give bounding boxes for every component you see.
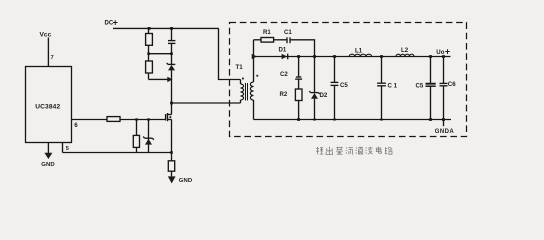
svg-text:D2: D2 — [320, 92, 328, 99]
wire source to sense resistor — [171, 153, 173, 161]
wire snubber mid link — [147, 52, 173, 55]
capacitor C1 — [287, 37, 290, 43]
node rail junction C3 — [333, 55, 336, 58]
resistor snubber lower — [146, 61, 153, 73]
wire gate pulldown branch — [136, 120, 138, 153]
node primary phase dot — [242, 78, 244, 80]
resistor R2 label — [280, 91, 288, 98]
transformer T1 secondary winding — [250, 82, 253, 100]
capacitor snubber — [168, 41, 175, 44]
node bottom junction C4 — [380, 118, 382, 120]
svg-text:R2: R2 — [280, 91, 288, 98]
svg-text:5: 5 — [66, 146, 69, 152]
wire snubber cap branch — [171, 28, 173, 40]
wire DC rail drop to primary — [219, 28, 241, 79]
svg-text:6: 6 — [74, 122, 78, 129]
wire R2 to bottom rail — [298, 101, 300, 120]
wire Vcc to pin 7 — [47, 38, 49, 67]
wire cap to diode — [171, 43, 173, 64]
resistor R2 — [295, 89, 302, 101]
svg-text:C6: C6 — [448, 81, 456, 88]
IC U1 UC3842 controller box — [26, 67, 72, 143]
wire MOSFET source down — [171, 120, 173, 153]
node rail junction C6 — [442, 55, 445, 58]
node MOSFET source junction — [170, 151, 173, 154]
node bottom junction D2 — [313, 118, 315, 120]
capacitor C5 electrolytic — [426, 57, 436, 120]
wire between snubber resistors — [148, 45, 150, 61]
capacitor C2 — [295, 77, 302, 79]
svg-text:C 1: C 1 — [388, 83, 398, 90]
ground main — [168, 176, 192, 184]
svg-text:GND: GND — [179, 178, 192, 184]
resistor gate series — [107, 117, 120, 122]
node secondary phase dot — [256, 75, 258, 77]
node Uo+ label — [436, 47, 450, 57]
svg-text:GND: GND — [41, 162, 54, 168]
label output filter caption (drawn CJK-like glyphs) — [316, 147, 392, 155]
resistor snubber upper — [146, 34, 153, 46]
node bottom junction C5 — [429, 118, 432, 121]
svg-text:+: + — [113, 18, 118, 28]
wire snubber bottom — [149, 73, 168, 79]
node rail junction C4 — [380, 55, 383, 58]
resistor gate pulldown — [133, 135, 139, 147]
transformer core — [246, 83, 248, 101]
node top rail junction 1 — [148, 27, 151, 30]
wire C1 to D2 node — [290, 40, 315, 57]
ground GNDA — [435, 120, 455, 136]
wire secondary top riser — [253, 40, 255, 82]
pin 6 label — [74, 122, 78, 129]
node rail junction C2 — [297, 55, 300, 58]
capacitor C1 label — [284, 29, 292, 36]
wire C2 to R2 — [298, 79, 300, 89]
wire snubber branch top left — [254, 39, 262, 41]
inductor L2 — [396, 54, 414, 56]
capacitor C6 label — [448, 81, 456, 88]
transformer T1 label — [236, 64, 244, 71]
svg-text:Vcc: Vcc — [40, 32, 52, 39]
svg-text:L2: L2 — [401, 47, 409, 54]
zener D2 — [309, 91, 319, 119]
node Vcc label — [40, 32, 52, 39]
wire D2 branch — [314, 57, 316, 93]
zener D2 label — [320, 92, 328, 99]
capacitor C4 label — [388, 83, 398, 90]
capacitor C2 label — [280, 71, 288, 78]
wire R1 to C1 — [274, 39, 287, 41]
node drain junction — [170, 102, 173, 105]
svg-text:+: + — [445, 47, 450, 57]
resistor R1 — [261, 38, 274, 43]
node bottom junction C6 — [442, 118, 445, 121]
svg-text:C2: C2 — [280, 71, 288, 78]
wire sense resistor to ground — [171, 171, 173, 177]
svg-text:T1: T1 — [236, 64, 244, 71]
transformer T1 primary winding — [241, 80, 244, 104]
svg-text:R1: R1 — [263, 29, 271, 36]
capacitor C3 label — [340, 82, 348, 89]
node bottom junction C3 — [333, 118, 335, 120]
inductor L2 label — [401, 47, 409, 54]
dashed output box — [230, 23, 467, 137]
wire snubber resistor branch top — [148, 28, 150, 33]
wire top rail — [113, 27, 219, 29]
svg-text:D1: D1 — [279, 47, 287, 54]
capacitor C6 — [440, 57, 448, 120]
pin 5 label — [66, 146, 69, 152]
node rail junction C5 — [429, 55, 432, 58]
ground IC — [41, 143, 54, 168]
pin 5 exit wire — [62, 143, 64, 153]
resistor current sense — [168, 161, 174, 171]
inductor L1 — [349, 54, 371, 56]
capacitor C4 — [377, 57, 386, 120]
svg-text:7: 7 — [51, 55, 54, 61]
resistor R1 label — [263, 29, 271, 36]
node junction on gate wire — [135, 118, 137, 120]
inductor L1 label — [355, 48, 363, 55]
node rail junction D2 — [313, 55, 316, 58]
svg-text:L1: L1 — [355, 48, 363, 55]
zener gate clamp — [143, 137, 154, 145]
pin 7 label — [51, 55, 54, 61]
capacitor C5 label — [416, 83, 424, 90]
diode snubber — [167, 63, 176, 70]
svg-text:C5: C5 — [340, 82, 348, 89]
wire output rail — [254, 56, 451, 58]
wire zener branch — [148, 120, 150, 153]
wire diode to drain node — [171, 70, 173, 114]
node DC+ label — [105, 18, 118, 28]
svg-text:C1: C1 — [284, 29, 292, 36]
wire C2 branch upper — [298, 57, 300, 77]
wire output bottom rail — [254, 119, 452, 121]
wire pin 6 to gate — [72, 119, 166, 121]
node snubber arrow junction — [167, 77, 172, 83]
diode D1 label — [279, 47, 287, 54]
label UC3842 — [35, 104, 60, 111]
wire primary bottom to drain — [172, 102, 241, 104]
svg-text:UC3842: UC3842 — [35, 104, 60, 111]
svg-text:Uo: Uo — [436, 49, 444, 56]
svg-text:C5: C5 — [416, 83, 424, 90]
wire secondary bottom drop — [253, 100, 255, 120]
capacitor C3 — [331, 57, 339, 120]
node bottom junction C2R2 — [297, 118, 300, 121]
node secondary rail arrow — [252, 54, 257, 59]
node top rail junction 2 — [170, 27, 173, 30]
diode D1 — [282, 54, 288, 60]
node junction on gate wire 2 — [147, 118, 149, 120]
wire bottom rail left — [63, 152, 172, 154]
svg-text:GNDA: GNDA — [435, 129, 455, 135]
transistor Q1 MOSFET — [166, 113, 172, 121]
